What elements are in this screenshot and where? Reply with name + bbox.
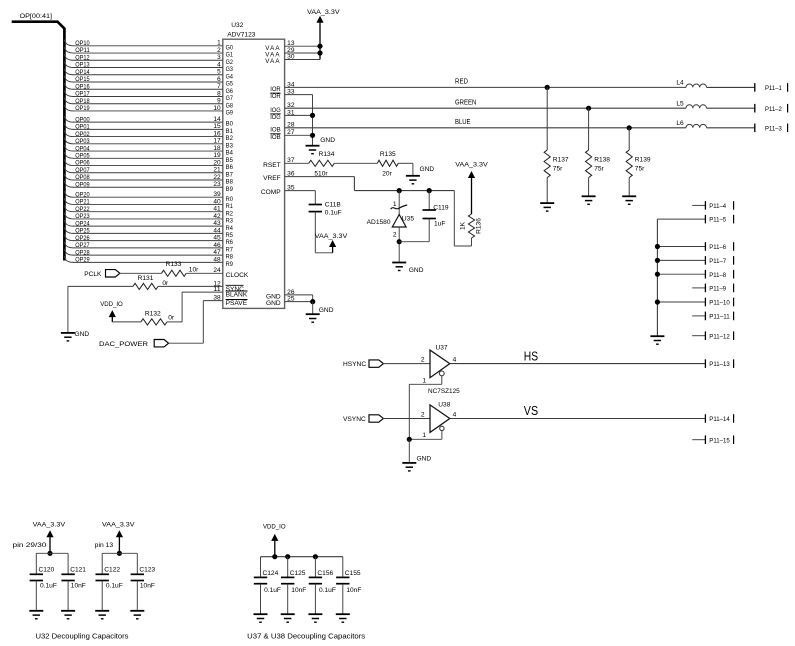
wire RSET pin 37 xyxy=(263,157,309,169)
capacitor C11B 0.1uF xyxy=(309,201,342,253)
svg-text:P11–12: P11–12 xyxy=(709,333,730,340)
svg-text:G7: G7 xyxy=(226,95,234,102)
svg-text:25: 25 xyxy=(287,296,295,303)
svg-text:OP11: OP11 xyxy=(75,47,90,54)
svg-text:pin 29/30: pin 29/30 xyxy=(13,542,47,549)
svg-text:B5: B5 xyxy=(226,157,234,164)
ground U37/U38 xyxy=(402,456,431,471)
svg-text:OP28: OP28 xyxy=(75,249,90,256)
junction GREEN net xyxy=(586,106,591,111)
connector P11-14 xyxy=(705,414,733,423)
svg-text:U32: U32 xyxy=(231,22,243,29)
svg-text:IOG: IOG xyxy=(270,107,281,114)
svg-text:0.1uF: 0.1uF xyxy=(264,587,281,594)
connector P11-6 xyxy=(657,242,733,251)
svg-text:L5: L5 xyxy=(676,100,684,107)
power VAA_3.3V at COMP xyxy=(315,233,348,253)
junction BLUE net xyxy=(627,125,632,130)
svg-text:R136: R136 xyxy=(476,218,483,234)
resistor R132 0r xyxy=(141,310,175,325)
svg-text:CLOCK: CLOCK xyxy=(226,272,249,279)
svg-text:C123: C123 xyxy=(139,567,155,574)
ground P11 rail xyxy=(650,336,664,344)
label ADV7123 xyxy=(227,32,256,39)
svg-text:OP24: OP24 xyxy=(75,220,90,227)
wire OP16 to pin 7 G6 xyxy=(64,83,233,95)
svg-text:P11–15: P11–15 xyxy=(709,437,730,444)
wire OP05 to pin 19 B5 xyxy=(64,152,233,164)
svg-text:C155: C155 xyxy=(345,570,361,577)
junction VDD_IO arrow xyxy=(272,554,277,559)
svg-text:GND: GND xyxy=(266,300,281,307)
resistor R133 10r xyxy=(162,261,200,276)
junction decoupling2 xyxy=(117,551,122,556)
svg-text:4: 4 xyxy=(453,357,457,364)
svg-text:OP15: OP15 xyxy=(75,76,90,83)
svg-text:44: 44 xyxy=(213,227,221,234)
buffer U38 xyxy=(421,401,457,432)
ground R139 xyxy=(622,196,636,204)
svg-text:P11–11: P11–11 xyxy=(709,314,730,321)
svg-text:OP03: OP03 xyxy=(75,138,90,145)
oe pin 1 U37 xyxy=(409,371,444,384)
svg-text:OP01: OP01 xyxy=(75,124,90,131)
svg-text:B2: B2 xyxy=(226,135,234,142)
svg-text:GND: GND xyxy=(320,137,335,144)
svg-text:OP08: OP08 xyxy=(75,174,90,181)
svg-text:OP04: OP04 xyxy=(75,145,90,152)
wire OP14 to pin 5 G4 xyxy=(64,69,233,81)
svg-text:OP00: OP00 xyxy=(75,116,90,123)
svg-text:HS: HS xyxy=(524,348,538,363)
svg-text:C125: C125 xyxy=(290,570,306,577)
svg-text:VAA_3.3V: VAA_3.3V xyxy=(455,161,488,168)
wire HS net xyxy=(450,348,706,363)
svg-text:B0: B0 xyxy=(226,121,234,128)
svg-text:GREEN: GREEN xyxy=(455,99,476,106)
wire OP22 to pin 41 R2 xyxy=(64,205,233,217)
inductor L6 xyxy=(676,120,754,128)
junction RED net xyxy=(545,85,550,90)
svg-text:OP26: OP26 xyxy=(75,235,90,242)
svg-text:IOB: IOB xyxy=(270,126,281,133)
svg-text:OP29: OP29 xyxy=(75,257,90,264)
svg-text:0.1uF: 0.1uF xyxy=(106,582,123,589)
svg-text:R2: R2 xyxy=(226,210,234,217)
junction GND pins xyxy=(310,299,315,304)
svg-text:COMP: COMP xyxy=(261,189,281,196)
svg-text:OP06: OP06 xyxy=(75,160,90,167)
capacitor C123 10nF xyxy=(131,553,156,611)
connector P11-9 xyxy=(692,284,733,293)
svg-text:OP09: OP09 xyxy=(75,181,90,188)
caption U37/U38 decoupling xyxy=(247,632,365,641)
svg-text:33: 33 xyxy=(287,89,295,96)
svg-text:8: 8 xyxy=(217,90,221,97)
wire decoupling1 rail xyxy=(36,552,68,554)
svg-text:OP05: OP05 xyxy=(75,153,90,160)
wire R132-BLANK pin 11 xyxy=(167,286,248,322)
svg-text:37: 37 xyxy=(287,157,295,164)
ground C155 xyxy=(336,614,350,622)
svg-text:20r: 20r xyxy=(382,170,392,177)
svg-text:27: 27 xyxy=(287,129,295,136)
svg-text:BLANK: BLANK xyxy=(226,292,248,299)
wire OP17 to pin 8 G7 xyxy=(64,90,233,102)
svg-text:16: 16 xyxy=(213,130,221,137)
svg-text:R137: R137 xyxy=(553,157,569,164)
svg-text:OP13: OP13 xyxy=(75,62,90,69)
svg-text:G1: G1 xyxy=(226,52,234,59)
ground C121 xyxy=(61,611,75,619)
capacitor C120 0.1uF xyxy=(30,553,57,611)
svg-text:OP19: OP19 xyxy=(75,105,90,112)
net label OP[00:41] xyxy=(20,13,53,20)
svg-text:RED: RED xyxy=(455,79,468,86)
connector P11-1 xyxy=(755,83,788,92)
connector P11-8 xyxy=(657,270,733,279)
svg-text:R7: R7 xyxy=(226,246,234,253)
svg-text:pin 13: pin 13 xyxy=(95,542,114,549)
svg-text:IOB: IOB xyxy=(270,134,281,141)
svg-text:U37: U37 xyxy=(436,345,448,352)
svg-text:22: 22 xyxy=(213,174,221,181)
connector P11-13 xyxy=(705,359,733,368)
svg-text:G8: G8 xyxy=(226,102,234,109)
wire OP29 to pin 48 R9 xyxy=(64,256,233,268)
wire COMP pin 35 xyxy=(261,185,315,205)
diode U35 AD1580 xyxy=(367,191,415,263)
svg-text:1uF: 1uF xyxy=(434,221,445,228)
capacitor C155 10nF xyxy=(336,557,361,615)
svg-text:U32 Decoupling Capacitors: U32 Decoupling Capacitors xyxy=(36,632,129,641)
wire OP03 to pin 17 B3 xyxy=(64,138,233,150)
svg-text:G5: G5 xyxy=(226,81,234,88)
svg-text:BLUE: BLUE xyxy=(455,119,471,126)
svg-text:OP17: OP17 xyxy=(75,91,90,98)
svg-text:9: 9 xyxy=(217,98,221,105)
svg-text:G9: G9 xyxy=(226,110,234,117)
wire R133-CLOCK pin 24 xyxy=(186,267,249,279)
connector P11-3 xyxy=(755,124,788,133)
svg-text:P11–1: P11–1 xyxy=(765,85,782,92)
capacitor C122 0.1uF xyxy=(96,553,123,611)
power VDD_IO xyxy=(100,301,123,317)
resistor R136 1K xyxy=(459,214,482,246)
svg-text:10r: 10r xyxy=(189,266,199,273)
wire pin 27 /IOB xyxy=(270,129,312,141)
svg-text:R8: R8 xyxy=(226,254,234,261)
wire pin 33 /IOR xyxy=(270,89,312,101)
svg-text:GND: GND xyxy=(420,166,435,173)
svg-text:C121: C121 xyxy=(70,567,86,574)
connector P11-7 xyxy=(657,256,733,265)
svg-text:PSAVE: PSAVE xyxy=(226,300,248,307)
wire OP19 to pin 10 G9 xyxy=(64,105,233,117)
svg-text:RSET: RSET xyxy=(263,162,281,169)
ground C122 xyxy=(95,611,109,619)
svg-text:46: 46 xyxy=(213,242,221,249)
svg-text:OP18: OP18 xyxy=(75,98,90,105)
svg-text:2: 2 xyxy=(217,47,221,54)
oe pin 1 U38 xyxy=(409,426,444,439)
wire decoupling3 rail xyxy=(261,556,343,558)
svg-text:4: 4 xyxy=(453,412,457,419)
svg-text:GND: GND xyxy=(75,331,90,338)
svg-text:10nF: 10nF xyxy=(71,582,86,589)
svg-text:75r: 75r xyxy=(553,166,563,173)
svg-text:20: 20 xyxy=(213,159,221,166)
svg-text:P11–7: P11–7 xyxy=(709,258,726,265)
power VAA_3.3V decoupling1 xyxy=(33,521,66,553)
svg-text:P11–4: P11–4 xyxy=(709,203,726,210)
svg-text:5: 5 xyxy=(217,69,221,76)
resistor R138 75r xyxy=(586,108,611,196)
wire P11 ground rail xyxy=(656,219,658,336)
svg-text:U35: U35 xyxy=(402,216,414,223)
svg-text:30: 30 xyxy=(287,53,295,60)
svg-text:21: 21 xyxy=(213,167,221,174)
label NC7SZ125 xyxy=(428,388,460,395)
svg-text:NC7SZ125: NC7SZ125 xyxy=(428,388,460,395)
svg-text:OP10: OP10 xyxy=(75,40,90,47)
svg-text:B9: B9 xyxy=(226,186,234,193)
wire pin 32 IOG / GREEN net xyxy=(270,99,686,113)
wire IOR-bar vertical to ground xyxy=(312,95,314,146)
wire DAC_POWER-PSAVE pin 38 xyxy=(168,295,247,344)
svg-text:R3: R3 xyxy=(226,218,234,225)
svg-text:1: 1 xyxy=(422,432,426,439)
svg-text:10: 10 xyxy=(213,105,221,112)
power VAA_3.3V at R136 xyxy=(455,161,488,214)
svg-text:23: 23 xyxy=(213,181,221,188)
buffer U37 xyxy=(421,345,457,378)
svg-text:C120: C120 xyxy=(39,567,55,574)
svg-text:P11–14: P11–14 xyxy=(709,416,730,423)
svg-text:0r: 0r xyxy=(168,315,175,322)
capacitor C119 1uF xyxy=(399,191,449,242)
svg-text:OP12: OP12 xyxy=(75,54,90,61)
svg-text:OP25: OP25 xyxy=(75,228,90,235)
svg-text:R5: R5 xyxy=(226,232,234,239)
svg-text:DAC_POWER: DAC_POWER xyxy=(99,341,148,348)
junction P11-10 xyxy=(655,299,660,304)
junction P11-6 xyxy=(655,244,660,249)
wire OE rail xyxy=(408,384,410,439)
capacitor C121 10nF xyxy=(61,553,86,611)
ground U32 xyxy=(306,307,334,322)
ground C124 xyxy=(254,614,268,622)
svg-text:G3: G3 xyxy=(226,66,234,73)
svg-text:10nF: 10nF xyxy=(346,587,361,594)
svg-text:1: 1 xyxy=(423,377,427,384)
svg-text:32: 32 xyxy=(287,102,295,109)
svg-text:G2: G2 xyxy=(226,59,234,66)
svg-text:3: 3 xyxy=(217,54,221,61)
capacitor C156 0.1uF xyxy=(309,557,336,615)
svg-text:2: 2 xyxy=(393,231,397,238)
wire R135 to ground xyxy=(398,163,413,176)
label pin 13 xyxy=(95,542,114,549)
svg-text:24: 24 xyxy=(213,267,221,274)
svg-text:L6: L6 xyxy=(676,120,684,127)
svg-text:C122: C122 xyxy=(104,567,120,574)
svg-text:48: 48 xyxy=(213,256,221,263)
svg-text:R134: R134 xyxy=(319,151,335,158)
svg-text:VDD_IO: VDD_IO xyxy=(263,524,286,531)
junction C125 xyxy=(285,554,290,559)
power VAA_3.3V xyxy=(307,9,340,59)
svg-text:U37 & U38 Decoupling Capacitor: U37 & U38 Decoupling Capacitors xyxy=(247,632,365,641)
svg-text:0.1uF: 0.1uF xyxy=(40,582,57,589)
port PCLK xyxy=(84,270,120,278)
svg-text:36: 36 xyxy=(287,171,295,178)
wire OP21 to pin 40 R1 xyxy=(64,198,233,210)
junction OE-GND xyxy=(407,437,412,442)
svg-text:OP02: OP02 xyxy=(75,131,90,138)
wire pin 34 IOR / RED net xyxy=(270,79,686,93)
resistor R134 510r xyxy=(309,151,335,178)
svg-text:OP16: OP16 xyxy=(75,83,90,90)
svg-text:OP23: OP23 xyxy=(75,213,90,220)
svg-text:R132: R132 xyxy=(145,310,161,317)
resistor R135 20r xyxy=(377,151,398,177)
resistor R131 0r xyxy=(133,275,169,289)
svg-text:G6: G6 xyxy=(226,88,234,95)
svg-text:P11–6: P11–6 xyxy=(709,244,726,251)
wire OP25 to pin 44 R5 xyxy=(64,227,233,239)
ground R135 xyxy=(406,166,434,184)
svg-text:45: 45 xyxy=(213,235,221,242)
svg-text:VAA: VAA xyxy=(265,58,280,65)
inductor L4 xyxy=(676,80,754,88)
wire OP11 to pin 2 G1 xyxy=(64,47,233,59)
svg-text:PCLK: PCLK xyxy=(84,271,102,278)
ground C120 xyxy=(29,611,43,619)
svg-text:P11–8: P11–8 xyxy=(709,272,726,279)
wire R134-R135 xyxy=(334,162,377,164)
svg-text:C124: C124 xyxy=(263,570,279,577)
wire OP24 to pin 43 R4 xyxy=(64,220,233,232)
svg-text:G0: G0 xyxy=(226,44,234,51)
svg-text:VDD_IO: VDD_IO xyxy=(100,301,123,308)
label U32 xyxy=(231,22,243,29)
wire OP13 to pin 4 G3 xyxy=(64,61,233,73)
svg-text:G4: G4 xyxy=(226,73,234,80)
junction VAA pin13 xyxy=(317,44,322,49)
svg-text:B8: B8 xyxy=(226,179,234,186)
svg-text:2: 2 xyxy=(421,357,425,364)
inductor L5 xyxy=(676,100,754,108)
svg-text:ADV7123: ADV7123 xyxy=(227,32,256,39)
svg-text:47: 47 xyxy=(213,249,221,256)
svg-text:B7: B7 xyxy=(226,171,234,178)
svg-text:75r: 75r xyxy=(635,166,645,173)
svg-text:75r: 75r xyxy=(594,166,604,173)
wire OP23 to pin 42 R3 xyxy=(64,213,233,225)
svg-text:19: 19 xyxy=(213,152,221,159)
svg-text:OP20: OP20 xyxy=(75,191,90,198)
wire R131-SYNC pin 12 xyxy=(158,280,244,293)
svg-text:VS: VS xyxy=(524,403,538,418)
svg-text:IOR: IOR xyxy=(270,93,281,100)
connector P11-15 xyxy=(692,435,733,444)
ground C123 xyxy=(130,611,144,619)
svg-text:R4: R4 xyxy=(226,225,234,232)
svg-text:B3: B3 xyxy=(226,142,234,149)
wire HSYNC to U37 xyxy=(383,363,430,365)
wire OP15 to pin 6 G5 xyxy=(64,76,233,88)
wire pin 30 VAA xyxy=(265,53,320,65)
connector P11-11 xyxy=(692,312,733,321)
wire pin 13 VAA xyxy=(265,40,320,52)
wire GND pin 25 xyxy=(266,296,313,308)
svg-text:L4: L4 xyxy=(676,80,684,87)
svg-text:C156: C156 xyxy=(317,570,333,577)
svg-text:28: 28 xyxy=(287,122,295,129)
svg-text:7: 7 xyxy=(217,83,221,90)
wire to ground xyxy=(312,302,314,315)
power VAA_3.3V decoupling2 xyxy=(102,521,135,553)
wire OP12 to pin 3 G2 xyxy=(64,54,233,66)
svg-text:17: 17 xyxy=(213,138,221,145)
wire VREF pin 36 xyxy=(263,171,471,247)
svg-text:R9: R9 xyxy=(226,261,234,268)
svg-text:GND: GND xyxy=(409,267,424,274)
svg-text:C11B: C11B xyxy=(325,201,342,208)
svg-text:OP07: OP07 xyxy=(75,167,90,174)
resistor R137 75r xyxy=(544,87,569,203)
ground IOx xyxy=(306,137,336,154)
svg-text:0.1uF: 0.1uF xyxy=(325,209,342,216)
wire OP02 to pin 16 B2 xyxy=(64,130,233,142)
svg-text:P11–2: P11–2 xyxy=(765,106,782,113)
svg-text:R133: R133 xyxy=(166,261,182,268)
junction C156 xyxy=(313,554,318,559)
wire OP10 to pin 1 G0 xyxy=(64,40,233,52)
resistor R139 75r xyxy=(626,128,651,197)
svg-text:R6: R6 xyxy=(226,239,234,246)
junction VREF-U35 xyxy=(397,188,402,193)
wire OP01 to pin 15 B1 xyxy=(64,123,233,135)
svg-text:R139: R139 xyxy=(635,157,651,164)
wire OP28 to pin 47 R8 xyxy=(64,249,233,261)
port HSYNC xyxy=(343,360,383,368)
svg-text:VAA_3.3V: VAA_3.3V xyxy=(102,521,135,528)
svg-text:31: 31 xyxy=(287,109,295,116)
svg-text:42: 42 xyxy=(213,213,221,220)
svg-text:41: 41 xyxy=(213,206,221,213)
svg-text:R138: R138 xyxy=(594,157,610,164)
junction decoupling1 xyxy=(47,551,52,556)
ground R138 xyxy=(582,196,596,204)
capacitor C124 0.1uF xyxy=(254,557,281,615)
svg-text:VAA_3.3V: VAA_3.3V xyxy=(33,521,66,528)
svg-text:B1: B1 xyxy=(226,128,234,135)
wire OP06 to pin 20 B6 xyxy=(64,159,233,171)
power VDD_IO decoupling3 xyxy=(263,524,286,557)
svg-text:B4: B4 xyxy=(226,150,234,157)
svg-text:14: 14 xyxy=(213,116,221,123)
svg-text:HSYNC: HSYNC xyxy=(343,361,366,368)
connector P11-12 xyxy=(692,331,733,340)
wire GND pin 26 xyxy=(266,289,313,302)
wire pin 28 IOB / BLUE net xyxy=(270,119,686,133)
svg-text:VAA_3.3V: VAA_3.3V xyxy=(307,9,340,16)
label pin 29/30 xyxy=(13,542,47,549)
svg-text:P11–9: P11–9 xyxy=(709,286,726,293)
svg-text:GND: GND xyxy=(319,307,334,314)
